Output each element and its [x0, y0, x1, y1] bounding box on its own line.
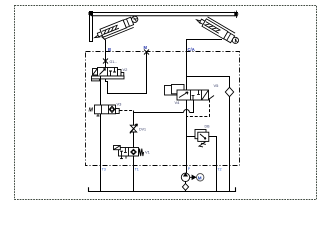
relief valve DB wires: [187, 137, 217, 192]
motor M1: [197, 174, 204, 181]
svg-text:T3: T3: [102, 168, 106, 172]
svg-text:M: M: [198, 175, 202, 180]
cylinder Z1 (left, tilted): [93, 15, 141, 43]
wire pump suction: [185, 182, 187, 192]
beam tick right: [236, 11, 238, 19]
main line C/A continuation through V4 to pump: [186, 100, 188, 173]
shaft arrow to motor: [190, 175, 196, 179]
beam arrow right: [235, 12, 239, 16]
beam arrow left: [88, 12, 92, 16]
svg-text:T2: T2: [218, 168, 222, 172]
svg-text:DV1: DV1: [139, 128, 146, 132]
svg-text:C/A: C/A: [188, 47, 195, 52]
svg-text:V3: V3: [117, 102, 123, 107]
throttle DV1: [130, 124, 138, 134]
svg-text:T1: T1: [135, 168, 139, 172]
cylinder Z2 (right, tilted): [195, 13, 241, 46]
branch wire to check valve V5: [187, 77, 230, 88]
wire DV1 branch down: [133, 111, 135, 148]
power unit boundary (dash-dot box): [86, 52, 240, 166]
valve V4 (pilot operated directional): [165, 85, 215, 101]
svg-text:V4: V4: [175, 100, 181, 105]
test point M on boundary: [144, 50, 149, 55]
svg-text:M: M: [144, 45, 148, 50]
wire V5 to tank: [229, 97, 231, 192]
pump P1: [181, 173, 189, 181]
tank: [89, 187, 236, 191]
svg-text:V1: V1: [145, 150, 151, 155]
svg-text:M: M: [89, 108, 94, 114]
pilot wire dashed from V3: [120, 110, 134, 112]
drawing frame: [15, 6, 317, 200]
svg-text:B: B: [108, 47, 111, 52]
pilot wire dashed V4: [187, 100, 210, 117]
svg-text:V2: V2: [123, 67, 129, 72]
wire A (V2 to tank T3): [100, 76, 102, 192]
wire from test point M down to V2 port: [106, 52, 147, 94]
post (left mount): [90, 12, 93, 42]
svg-text:V5: V5: [214, 83, 220, 88]
valve V2 (solenoid directional): [92, 68, 125, 81]
wire C/A from cylinder Z2: [187, 40, 223, 91]
suction strainer: [182, 184, 188, 191]
valve V3 (check/gauge valve): [95, 105, 120, 116]
valve V1 (solenoid check): [114, 146, 144, 159]
machine beam: [89, 13, 239, 16]
wire T1 (V1 to tank): [133, 156, 135, 192]
test point X on wire B: [103, 59, 108, 64]
svg-text:G1...: G1...: [110, 60, 118, 64]
check valve V5: [225, 87, 233, 96]
wire B from cylinder Z1: [102, 37, 106, 68]
relief valve DB: [195, 130, 209, 147]
svg-text:P: P: [188, 167, 191, 171]
svg-text:DB: DB: [205, 125, 211, 129]
wire junction to V4 (hop over main line): [134, 100, 194, 113]
